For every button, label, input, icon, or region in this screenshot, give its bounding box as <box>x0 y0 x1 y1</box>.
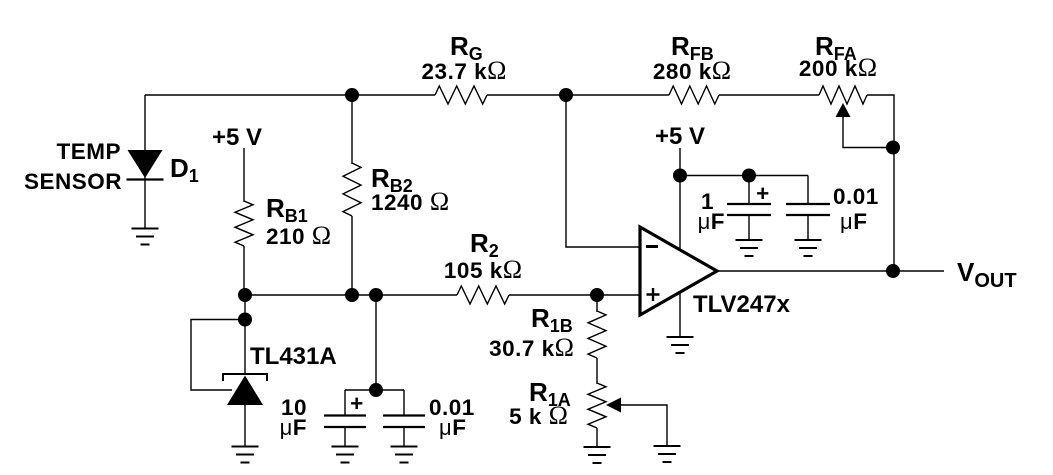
ground under R1A <box>584 447 611 463</box>
wire RFA to right rail, down to output node <box>867 95 894 271</box>
ground under TL431A <box>232 447 259 463</box>
svg-text:23.7 kΩ: 23.7 kΩ <box>422 56 507 85</box>
svg-text:105 kΩ: 105 kΩ <box>444 255 522 284</box>
resistor RB2 <box>343 163 361 216</box>
node junction top rail / RG-RFB / inverting branch <box>559 88 573 102</box>
wire RFA wiper to right rail <box>843 117 893 148</box>
wire inverting input branch <box>566 95 640 247</box>
wire RB2 bottom to node row <box>351 216 353 295</box>
svg-text:μF: μF <box>280 415 307 440</box>
wire top rail left: D1 to RG <box>145 94 435 96</box>
TL431A triangle <box>227 376 263 406</box>
svg-text:SENSOR: SENSOR <box>24 169 122 194</box>
node junction cap branch/node row <box>369 288 383 302</box>
wire RG to RFB node <box>487 94 669 96</box>
ground under C2 <box>391 447 418 463</box>
wire TL431A reference feedback <box>191 320 245 391</box>
wire R1A to ground <box>596 428 598 447</box>
svg-text:+5 V: +5 V <box>655 123 705 150</box>
wire cap branch vertical <box>375 295 377 390</box>
wire R1B top <box>596 295 598 312</box>
RFA wiper arrow <box>836 103 851 117</box>
diode D1 cathode bar <box>127 178 164 180</box>
capacitor C1 10uF lead top <box>344 390 346 416</box>
ground under C4 <box>795 240 822 256</box>
capacitor C2 lead bottom <box>403 427 405 447</box>
ground under C3 <box>736 240 763 256</box>
node junction top rail / RB2 <box>345 88 359 102</box>
wire R2 to non-inverting input <box>509 294 640 296</box>
svg-text:1240 Ω: 1240 Ω <box>371 187 449 216</box>
svg-text:TLV247x: TLV247x <box>693 291 791 318</box>
capacitor C4 0.01uF lead top <box>807 176 809 205</box>
resistor R1A potentiometer <box>588 383 606 428</box>
svg-text:TL431A: TL431A <box>250 343 337 370</box>
svg-text:+: + <box>756 181 770 206</box>
node junction R1B/non-inverting input <box>590 288 604 302</box>
capacitor C1 10uF plates <box>324 416 366 428</box>
resistor RB1 <box>235 201 253 246</box>
node junction cap C3 <box>742 169 756 183</box>
svg-text:μF: μF <box>439 415 466 440</box>
wire cap branch connector <box>345 389 404 391</box>
ground under C1 <box>332 447 359 463</box>
wire TL431A anode to ground <box>244 405 246 447</box>
svg-text:0.01: 0.01 <box>833 184 879 209</box>
wire RFB to RFA <box>719 94 819 96</box>
resistor R1B <box>588 311 606 358</box>
node junction +5V/caps <box>673 169 687 183</box>
wire R1A wiper to ground <box>621 405 667 446</box>
node junction wiper/right rail <box>886 141 900 155</box>
node junction output/right rail <box>886 264 900 278</box>
ground at R1A wiper <box>654 446 681 462</box>
resistor RFB <box>669 86 719 104</box>
wire D1 branch vertical <box>144 95 146 229</box>
wire TL431A cathode <box>244 295 246 374</box>
R1A wiper arrow <box>606 398 621 413</box>
wire RB1 to node row <box>243 246 245 295</box>
wire op-amp output <box>717 270 944 272</box>
wire op-amp power to ground <box>679 291 681 337</box>
wire supply cap rail <box>680 175 808 177</box>
resistor RG <box>435 86 487 104</box>
op-amp U1 TLV247x triangle <box>640 227 717 315</box>
wire node row left <box>244 294 457 296</box>
op-amp minus pin symbol <box>646 245 658 248</box>
capacitor C3 lead bottom <box>748 215 750 240</box>
ground under D1 <box>132 229 159 245</box>
svg-text:210 Ω: 210 Ω <box>266 221 331 250</box>
diode D1 triangle <box>128 150 163 178</box>
capacitor C3 1uF plates <box>727 204 771 215</box>
capacitor C2 0.01uF plates <box>383 416 425 428</box>
capacitor C4 lead bottom <box>807 215 809 240</box>
wire +5V to RB1 <box>243 148 245 202</box>
capacitor C4 0.01uF plates <box>786 204 830 215</box>
resistor R2 <box>457 286 509 304</box>
svg-text:+: + <box>350 391 364 416</box>
wire RB2 top <box>351 95 353 164</box>
resistor RFA potentiometer <box>819 86 867 104</box>
ground under op-amp <box>667 337 694 353</box>
op-amp plus pin symbol <box>647 288 660 301</box>
wire +5V right supply <box>679 148 681 249</box>
svg-text:μF: μF <box>698 209 725 234</box>
capacitor C2 0.01uF lead top <box>403 390 405 416</box>
svg-text:+5 V: +5 V <box>212 124 262 151</box>
node junction RB2/node row <box>345 288 359 302</box>
wire R1B to R1A <box>596 358 598 384</box>
capacitor C3 1uF lead top <box>748 176 750 205</box>
svg-text:TEMP: TEMP <box>56 139 121 164</box>
svg-text:30.7 kΩ: 30.7 kΩ <box>489 333 574 362</box>
svg-text:200 kΩ: 200 kΩ <box>799 53 877 82</box>
svg-text:μF: μF <box>840 209 867 234</box>
svg-text:5 k Ω: 5 k Ω <box>509 401 568 430</box>
node junction RB1/node row <box>238 288 252 302</box>
TL431A cathode bar <box>223 374 267 381</box>
svg-text:280 kΩ: 280 kΩ <box>653 56 731 85</box>
node junction TL431A ref <box>238 313 252 327</box>
node junction caps <box>369 383 383 397</box>
capacitor C1 lead bottom <box>344 427 346 447</box>
